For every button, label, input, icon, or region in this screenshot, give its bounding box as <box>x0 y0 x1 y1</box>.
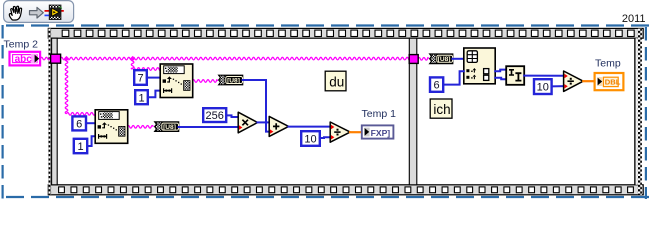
toolbar hand (pan) tool icon <box>9 6 21 20</box>
wire: Index Array out 2 to Join <box>495 78 506 79</box>
string control Temp 2 (abc terminal) <box>10 52 41 66</box>
flat sequence: bottom filmstrip bar <box>48 185 643 195</box>
wire: 10 to Divide <box>320 136 330 139</box>
toolbar VI film icon <box>45 5 64 20</box>
numeric constant 10 (frame 1) <box>301 131 320 146</box>
svg-text:2011: 2011 <box>622 13 646 25</box>
numeric constant 7 <box>134 70 147 85</box>
wire: 1 to lower String Subset length <box>87 136 95 146</box>
numeric constant 10 (frame 2) <box>534 79 552 94</box>
function lower String to Byte Array (String to Byte Array) <box>155 122 179 132</box>
junction on string wire (lower branch) <box>64 56 69 61</box>
svg-text:Temp 1: Temp 1 <box>362 108 397 120</box>
wire: Join out to Divide <box>524 75 563 77</box>
function upper String Subset (String Subset) <box>160 64 193 98</box>
wire: upper String Subset output to byte-array <box>192 80 217 83</box>
function Multiply <box>238 112 257 133</box>
dashed marquee bottom edge <box>6 196 649 198</box>
svg-text:6: 6 <box>76 119 82 131</box>
wire: lower byte array to Multiply <box>179 126 239 128</box>
free label ich <box>430 99 452 118</box>
svg-text:1: 1 <box>138 92 144 104</box>
wire: 256 to Multiply <box>226 115 238 117</box>
flat sequence: frame 1 left border bar <box>52 38 58 185</box>
svg-text:[U8]: [U8] <box>163 124 176 131</box>
wire: Divide out to Temp <box>583 80 594 82</box>
wire: 7 to String Subset offset <box>147 77 161 79</box>
function Index Array <box>464 48 495 84</box>
svg-text:ich: ich <box>433 102 450 117</box>
svg-text:[U8]: [U8] <box>227 77 240 84</box>
wire: Divide out to Temp 1 <box>350 131 362 133</box>
indicator Temp 1 (FXP terminal) <box>362 125 394 138</box>
wire: upper byte array out, down to Add <box>243 80 270 132</box>
wire: 6 to Index Array index <box>443 71 464 84</box>
wire: Multiply out to Add <box>257 121 269 123</box>
svg-text:6: 6 <box>434 80 440 92</box>
numeric constant 1 (lower) <box>74 139 87 153</box>
wire: Index Array out 1 to Join <box>495 70 506 72</box>
dashed marquee left edge <box>1 25 3 199</box>
wire: Temp 2 control to tunnel <box>40 57 50 60</box>
svg-text:Temp: Temp <box>595 57 621 69</box>
dashed marquee top edge <box>6 24 649 26</box>
numeric constant 256 <box>203 108 226 122</box>
indicator Temp (DBL terminal) <box>595 73 624 90</box>
flat sequence: frame 2 right border bar <box>634 38 636 185</box>
svg-text:Temp 2: Temp 2 <box>4 39 39 51</box>
dashed marquee right edge <box>645 27 647 199</box>
svg-text:DBL: DBL <box>605 78 621 87</box>
svg-text:10: 10 <box>304 134 316 146</box>
svg-text:1: 1 <box>77 141 83 153</box>
numeric constant 6 (frame 2) <box>430 77 443 91</box>
wire: Add out to Divide <box>288 126 330 128</box>
flat sequence: top filmstrip bar <box>48 28 643 38</box>
function Add <box>269 116 288 136</box>
junction on string wire (upper branch) <box>130 56 135 61</box>
wire: lower String Subset output to byte-array <box>127 126 153 129</box>
function Divide (frame 2) <box>564 71 584 91</box>
free label du <box>325 71 346 91</box>
svg-text:du: du <box>329 74 344 89</box>
toolbar arrow tool icon <box>30 7 44 18</box>
wire: string wire tunnel to byte-array (frame 2) <box>418 58 428 61</box>
numeric constant 6 (frame 1) <box>72 116 86 130</box>
wire: 6 to lower String Subset offset <box>86 122 95 124</box>
wire: branch down to upper String Subset <box>131 59 160 71</box>
function Divide (frame 1) <box>330 122 350 142</box>
svg-text:7: 7 <box>137 73 143 85</box>
wire: main string wire across frame 1 <box>60 57 409 60</box>
numeric constant 1 (upper) <box>135 90 148 104</box>
svg-text:FXP]: FXP] <box>371 128 391 138</box>
svg-text:256: 256 <box>206 110 224 122</box>
flat sequence: right checkered edge <box>638 28 642 194</box>
wire: 10 to Divide (frame 2) <box>552 85 564 87</box>
tunnel on frame 1 left border <box>51 54 61 63</box>
function frame 2 String to Byte Array (String to Byte Array) <box>430 54 453 64</box>
tunnel on frame divider <box>409 55 418 64</box>
function lower String Subset (String Subset) <box>95 110 128 144</box>
function Join Numbers <box>506 66 524 85</box>
toolbar palette box <box>4 1 74 23</box>
wire: branch down to lower String Subset <box>65 59 95 116</box>
svg-text:10: 10 <box>537 82 549 94</box>
flat sequence: frame divider bar <box>409 38 417 185</box>
wire: 1 to String Subset length <box>148 91 161 98</box>
function upper String to Byte Array (String to Byte Array) <box>219 75 243 85</box>
flat sequence: left checkered edge <box>48 28 51 194</box>
wire: frame2 byte array to Index Array <box>452 58 464 60</box>
svg-text:[U8]: [U8] <box>438 56 451 63</box>
svg-text:abc: abc <box>15 54 33 65</box>
